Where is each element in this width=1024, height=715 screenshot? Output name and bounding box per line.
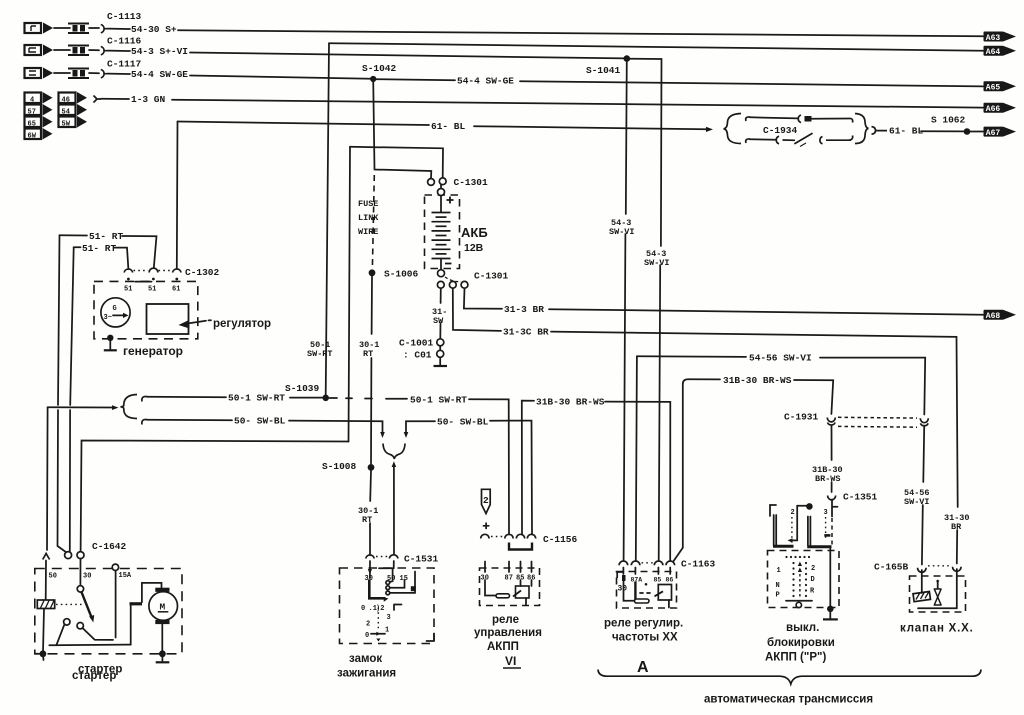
label 30-1 RT (359, 340, 379, 359)
svg-text:C-1116: C-1116 (107, 36, 142, 47)
connector C-1301 bottom pins (437, 281, 444, 288)
wire 54-3 SW-VI branch2 lower (659, 265, 661, 560)
A-tag A64 (984, 46, 1017, 57)
svg-text:C-1302: C-1302 (185, 267, 220, 278)
generator dashed box (94, 281, 198, 338)
wire 51-RT upper row (60, 234, 88, 236)
connector C-1931 left (827, 418, 835, 425)
input tag row6 arrow2 (77, 116, 87, 128)
arrowhead into merge left (380, 432, 385, 438)
svg-text:S-1041: S-1041 (586, 65, 621, 76)
svg-text:G: G (113, 305, 117, 313)
selector bottom contact (786, 600, 812, 602)
connector C001 (437, 350, 444, 357)
svg-text:M: M (160, 602, 166, 613)
input tag row6 box2 (59, 117, 76, 129)
wire 50-SW-BL to C-1156 (490, 421, 532, 535)
input tag row4 box1 (25, 93, 42, 105)
tick under diagonal (800, 143, 806, 147)
input tag row1 arrow (43, 23, 53, 34)
wire to C-1351 (831, 482, 833, 492)
wire 1-3 GN to A66 (172, 100, 983, 108)
wire 50-SW-BL left (147, 419, 232, 421)
svg-text:S-1008: S-1008 (322, 461, 357, 472)
battery plates (432, 213, 451, 259)
ground generator (104, 335, 117, 351)
input tag row4 arrow1 (43, 92, 53, 104)
wire 51-RT lower row (74, 246, 81, 248)
svg-text:50: 50 (49, 573, 57, 581)
fuse link wire dashed (372, 175, 374, 268)
brace open C-1934 (724, 114, 742, 144)
connector C-1301 top pins (428, 179, 435, 186)
label 31B-30 BR-WS vertical (812, 465, 843, 484)
dotted joins C-1302 (134, 270, 173, 272)
input tag row5 box1 (25, 105, 42, 117)
wire contact to 15A (83, 571, 116, 640)
label 30-1 RT second (358, 506, 378, 525)
wire 31-3 BR from pin (464, 288, 502, 308)
svg-text:D: D (811, 576, 815, 584)
svg-text:C-1117: C-1117 (107, 59, 142, 70)
dotted join C-1163 (642, 562, 654, 564)
contact 50 link (390, 581, 393, 582)
selector center arrows (798, 562, 802, 598)
svg-text:31-3C BR: 31-3C BR (503, 326, 549, 337)
connector Y row4 (94, 96, 102, 103)
svg-text:3: 3 (824, 509, 828, 517)
splice S-1008 (368, 464, 375, 471)
blob contact R (411, 586, 416, 591)
svg-text:3~: 3~ (104, 314, 112, 322)
ground dot starter coil (40, 650, 47, 657)
wire 54-4 SW-GE mid (376, 79, 455, 80)
connector C-1001 (437, 339, 444, 346)
svg-text:LINK: LINK (358, 213, 379, 223)
wire battery feed top (350, 147, 443, 178)
svg-text:P: P (776, 592, 780, 600)
svg-text:: C01: : C01 (403, 350, 432, 361)
connector C-1113 symbol (101, 25, 108, 33)
wire row3 (89, 72, 99, 74)
svg-text:стартер: стартер (72, 670, 116, 682)
svg-text:генератор: генератор (123, 344, 183, 358)
svg-text:54: 54 (62, 108, 70, 116)
svg-text:клапан X.X.: клапан X.X. (900, 623, 974, 635)
svg-text:30: 30 (618, 585, 628, 594)
dotted join C-1531 (376, 556, 388, 558)
wire 31B-30 BR-WS below C-1931 (831, 426, 833, 460)
wire 51-RT upper to C-1302 pin2 (122, 236, 157, 268)
wire 50-1 SW-RT left (147, 396, 226, 398)
connector C-1642 (65, 552, 72, 559)
svg-text:блокировки: блокировки (767, 637, 835, 649)
wire 50-1 SW-RT riser (326, 43, 329, 394)
dotted col left P-switch (791, 517, 793, 543)
svg-text:2: 2 (483, 495, 489, 506)
wire row1 (89, 27, 99, 29)
wire C-1934 top branch right (812, 118, 849, 120)
relay XX contact (624, 582, 635, 601)
dash marks in relay XX (640, 592, 650, 594)
battery bottom terminal (438, 270, 445, 277)
connector C-1931 right (920, 418, 928, 425)
svg-text:15A: 15A (119, 572, 132, 580)
tick below pointer (376, 639, 380, 642)
motor M1 (149, 588, 178, 624)
input tag row6 box1 (25, 117, 42, 129)
connector C-1117 symbol (101, 70, 108, 78)
splice S-1042 (370, 76, 376, 82)
hook top branch right (849, 118, 853, 122)
svg-text:31-3 BR: 31-3 BR (504, 304, 544, 315)
svg-text:регулятор: регулятор (213, 318, 271, 330)
dotted column positions (377, 608, 379, 632)
P-switch middle element (788, 503, 832, 547)
input tag row2 arrow (43, 45, 53, 56)
terminal 15A (112, 564, 118, 570)
dotted actuation link (56, 603, 84, 605)
hook top branch left (746, 117, 750, 121)
svg-text:выкл.: выкл. (786, 622, 819, 634)
wire 54-30 SW to A63 (108, 28, 130, 30)
pin labels 51 51 61 (124, 286, 180, 294)
hook at pin1 (617, 572, 623, 578)
contact lower link (390, 572, 415, 593)
wire 1-3 GN stub (101, 98, 129, 100)
svg-text:5W: 5W (62, 120, 71, 128)
svg-text:A63: A63 (986, 34, 1001, 43)
svg-text:SW-VI: SW-VI (644, 258, 670, 268)
svg-text:51- RT: 51- RT (82, 243, 117, 254)
input tag row2 box (25, 45, 42, 55)
svg-text:C-1642: C-1642 (92, 541, 127, 552)
selector letters left (776, 567, 781, 600)
selector dot matrix (785, 556, 810, 597)
wire C-1934 top branch (750, 117, 798, 118)
svg-text:51: 51 (148, 286, 156, 294)
relay VI coil (513, 580, 532, 605)
label VI underlined (503, 654, 521, 668)
wire 51-RT upper riser (58, 235, 60, 405)
wire 30 into switch (79, 559, 81, 586)
relay VI dashed box (480, 568, 540, 606)
svg-text:51: 51 (124, 286, 132, 294)
svg-text:86: 86 (666, 577, 674, 584)
svg-text:C-1301: C-1301 (454, 177, 489, 188)
wire C-1351 into switch (832, 500, 838, 517)
svg-text:А: А (637, 659, 649, 676)
wire 51-RT lower to C-1302 pin1 (114, 248, 128, 268)
battery dashed box (425, 195, 460, 269)
svg-text:A65: A65 (986, 84, 1001, 93)
battery + terminal (438, 189, 445, 196)
input tag row7 box (25, 129, 42, 141)
svg-text:A68: A68 (986, 312, 1001, 321)
brace close C-1934 (855, 114, 869, 144)
wire 50-SW-BL to merge (289, 421, 383, 433)
wire to S-1062 (921, 130, 964, 132)
wire 54-4 to C-1301 (373, 79, 431, 178)
transmission underbrace (598, 670, 981, 685)
valve symbol (934, 581, 941, 606)
bracket split 50 wires (121, 395, 138, 419)
svg-text:30: 30 (83, 573, 91, 581)
wire 61-BL riser to generator (176, 122, 179, 269)
wire 31B-30 BR-WS to C-1931 (794, 380, 833, 414)
input tag row6 arrow1 (43, 116, 53, 128)
svg-text:N: N (776, 582, 780, 590)
svg-text:реле регулир.: реле регулир. (604, 618, 683, 630)
svg-text:50- SW-BL: 50- SW-BL (437, 416, 489, 427)
wire 50-1 dashes after splice (329, 397, 407, 400)
svg-text:C-1931: C-1931 (784, 412, 819, 423)
input tag row5 arrow2 (77, 104, 87, 116)
regulator rectangle (147, 304, 189, 334)
input tag row7 arrow (43, 128, 53, 140)
svg-text:C-1934: C-1934 (763, 125, 798, 136)
pin blobs (622, 575, 626, 581)
svg-text:SW-VI: SW-VI (904, 497, 930, 507)
P-switch left bottom bar (773, 545, 794, 548)
wire 31-30 BR to valve (956, 530, 958, 564)
svg-text:управления: управления (474, 627, 542, 639)
wire 31-SW lower (439, 323, 441, 339)
hook bottom branch left (746, 139, 750, 143)
svg-text:VI: VI (505, 654, 516, 668)
svg-text:C-165B: C-165B (874, 562, 909, 573)
pin 50 15 stubs (379, 561, 394, 580)
label 31-30 BR (944, 513, 970, 532)
connector bottom b (820, 137, 851, 144)
wire 50 to starter (46, 408, 49, 551)
label 50-1 SW-RT riser (307, 340, 333, 359)
wire 54-3 SW-VI branch1 upper (626, 59, 627, 214)
connector mark on 50 wire (43, 554, 50, 560)
wire row1 stub (54, 27, 70, 29)
connector bottom a (776, 136, 795, 144)
generator G circle (101, 298, 130, 327)
wire 31B-30 BR-WS branch riser (683, 379, 720, 548)
wire row2 stub (54, 49, 70, 51)
inner corner marks (394, 605, 434, 642)
connector C-1351 (828, 496, 836, 500)
label 54-3 SW-VI branch2 (644, 249, 670, 268)
wire 54-56 SW-VI from corner (636, 356, 637, 560)
wire 54-56 SW-VI to C-1931 (820, 358, 925, 415)
svg-text:61- BL: 61- BL (889, 126, 924, 137)
switch contact lower right (77, 623, 83, 629)
regulator arrow (179, 320, 212, 329)
thick dash right (824, 534, 830, 537)
svg-text:2: 2 (791, 509, 795, 517)
hook 50 branch (142, 420, 147, 425)
svg-text:)2: )2 (376, 605, 384, 613)
connector C-1163 pins (619, 561, 675, 565)
position pointer (371, 633, 385, 635)
valve left wire (921, 570, 923, 593)
arrow into C-1934 group (706, 127, 713, 132)
svg-text:3: 3 (387, 614, 391, 622)
P-switch left channel (774, 515, 777, 546)
P-switch ground wire (829, 549, 831, 606)
wire feed to motor (142, 583, 162, 602)
svg-text:2: 2 (811, 565, 815, 573)
diagonal into C-1163 pin4 (674, 548, 683, 561)
input tag row4 arrow2 (77, 92, 87, 104)
svg-text:C-1531: C-1531 (404, 554, 439, 565)
inline fuse row1 (68, 24, 89, 34)
wire 31-3C BR from pin (453, 288, 501, 331)
svg-text:C-1163: C-1163 (681, 559, 716, 570)
merge brace (383, 444, 405, 460)
ignition dashed box (340, 568, 435, 644)
valve dashed box (910, 576, 966, 612)
dashes right vertical (831, 518, 833, 545)
valve coil (913, 591, 930, 601)
dotted col right P-switch (825, 517, 827, 541)
pin 30 stub (369, 561, 371, 578)
arrow up from merge (392, 461, 397, 554)
svg-text:61: 61 (172, 286, 180, 294)
wire contact to motor feed (49, 605, 130, 645)
arrowhead into merge right (404, 432, 409, 438)
relay XX pin stubs (623, 568, 670, 575)
battery plus sign (447, 197, 454, 204)
svg-text:50-1 SW-RT: 50-1 SW-RT (228, 393, 285, 404)
label 54-56 SW-VI vertical (904, 488, 930, 507)
battery minus sign (445, 263, 452, 265)
wire 30-1 RT to C-1531 (369, 523, 371, 554)
svg-text:54-4 SW-GE: 54-4 SW-GE (457, 76, 514, 87)
svg-text:SW-RT: SW-RT (307, 349, 333, 359)
svg-text:50- SW-BL: 50- SW-BL (234, 416, 286, 427)
svg-text:12В: 12В (464, 242, 484, 254)
svg-text:0: 0 (361, 605, 365, 613)
svg-text:61- BL: 61- BL (431, 121, 466, 132)
wire 31-3C BR across (551, 332, 958, 507)
wire S-1062 to A67 (970, 131, 983, 133)
wire battery main cable riser (349, 147, 351, 442)
relay VI contact (485, 580, 498, 596)
svg-text:WIRE: WIRE (358, 227, 378, 237)
svg-text:замок: замок (349, 653, 382, 665)
svg-text:частоты XX: частоты XX (612, 632, 678, 644)
svg-text:C-1001: C-1001 (399, 338, 434, 349)
valve right wire (956, 569, 958, 608)
starter dashed box (35, 569, 182, 654)
svg-text:S-1042: S-1042 (362, 63, 397, 74)
wire 54-30 SW long (178, 30, 983, 36)
inline fuse row2 (68, 46, 89, 56)
svg-text:SW: SW (433, 316, 444, 326)
input tag row4 box2 (59, 93, 76, 105)
switch diagonal C-1934 (795, 134, 812, 144)
battery stem bottom (440, 259, 442, 270)
wire 61-BL horizontal (178, 122, 430, 126)
connector pair top (798, 115, 801, 123)
connector C-165B pins (918, 567, 962, 573)
svg-text:АКБ: АКБ (461, 225, 488, 240)
svg-text:31B-30 BR-WS: 31B-30 BR-WS (536, 397, 605, 408)
hook bottom branch right (849, 136, 853, 141)
svg-text:2: 2 (366, 621, 370, 629)
wire row2 (89, 49, 99, 51)
svg-text:4: 4 (30, 96, 34, 104)
svg-text:C-1113: C-1113 (107, 11, 142, 22)
A-tag A68 (984, 310, 1017, 321)
wire 30-1 RT upper (371, 276, 373, 334)
link bar pins 51-51 (135, 281, 152, 283)
contact 15 link (390, 580, 405, 588)
splice S-1006 (369, 269, 376, 276)
wire 31B-30 BR-WS to C-1163 pin4 (605, 402, 670, 561)
input tag row3 arrow (43, 68, 53, 79)
ignition contact bar (369, 580, 385, 599)
wire C-1934 bottom branch (750, 138, 776, 141)
svg-text:реле: реле (492, 614, 519, 626)
wire 54-3 SW-VI to S-1041 (190, 53, 625, 59)
A-tag A67 (984, 127, 1017, 138)
svg-text:S-1006: S-1006 (384, 269, 419, 280)
wire 51-RT upper riser lower (58, 410, 68, 553)
label 54-3 SW-VI branch1 (609, 218, 635, 237)
svg-text:автоматическая трансмиссия: автоматическая трансмиссия (704, 694, 873, 706)
svg-text:SW-VI: SW-VI (609, 227, 635, 237)
svg-text:51- RT: 51- RT (89, 231, 124, 242)
wire 54-4 SW-GE to A65 (520, 81, 983, 86)
svg-text:87: 87 (505, 575, 513, 583)
splice S-1041 (624, 55, 631, 62)
wire 54-56 SW-VI horizontal (637, 355, 746, 358)
hook 50-1 branch (142, 397, 147, 402)
ground battery (439, 346, 441, 366)
svg-text:S-1039: S-1039 (285, 383, 320, 394)
label 31-SW (432, 307, 447, 326)
wire 50-1 to C-1156 (469, 399, 509, 534)
valve bottom wire (918, 607, 957, 609)
connector C-1531 pins (366, 555, 398, 559)
relay VI pin stubs (485, 562, 532, 573)
selector letters right (810, 565, 815, 596)
input tag row3 box (25, 68, 42, 78)
switch contact lower left (64, 619, 70, 625)
switch contact 30 (77, 586, 83, 592)
svg-text:54-56 SW-VI: 54-56 SW-VI (749, 352, 812, 363)
svg-text:1-3 GN: 1-3 GN (131, 94, 166, 105)
svg-text:6W: 6W (28, 132, 37, 140)
wire 54-3 SW-VI branch1 lower (624, 234, 626, 560)
P-switch upper left hook (770, 505, 776, 516)
svg-text:65: 65 (28, 120, 36, 128)
splice S-1039 (322, 395, 329, 402)
wire coil to ground dot (43, 609, 44, 653)
battery stem top (440, 196, 442, 213)
svg-text:АКПП ("Р"): АКПП ("Р") (765, 652, 826, 664)
inline fuse row3 (68, 69, 89, 79)
connector C-1302 pins (124, 268, 181, 272)
wire 30-1 RT to ignition (369, 471, 372, 501)
input tag row5 arrow1 (43, 104, 53, 116)
svg-text:BR-WS: BR-WS (815, 474, 841, 484)
wire row3 stub (54, 72, 70, 74)
svg-text:FUSE: FUSE (358, 199, 378, 209)
wire 61-BL to bracket (474, 126, 706, 129)
relay VI pin labels (481, 575, 536, 583)
ground P-switch (823, 606, 838, 620)
svg-text:31B-30 BR-WS: 31B-30 BR-WS (723, 375, 792, 386)
svg-text:зажигания: зажигания (337, 668, 396, 680)
